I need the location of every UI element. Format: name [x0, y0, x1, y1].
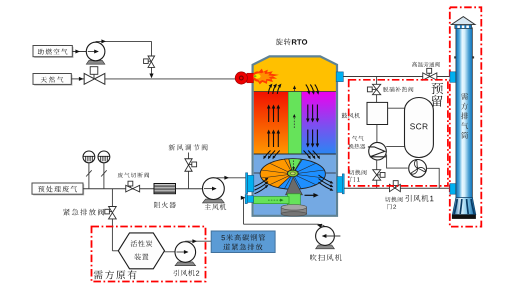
chimney skirt: [452, 198, 475, 215]
wire branch down to 脱硝补热阀: [376, 77, 378, 103]
label 紧急排放阀: [63, 209, 104, 216]
wire bottom main line RTO to chimney: [344, 187, 450, 189]
RTO right heat-bed column (magenta-blue gradient): [300, 92, 336, 155]
label 新风调节阀: [169, 144, 208, 150]
label 引风机1: [406, 195, 434, 202]
wire main waste-gas line: [83, 188, 203, 190]
wire 助燃空气-to-blower with arrow: [72, 50, 92, 54]
arrows left column up group1: [267, 105, 280, 123]
blower box (SCR air): [367, 102, 388, 124]
wire emergency branch down: [112, 189, 118, 251]
valve natural-gas (horizontal) with actuator: [84, 67, 105, 85]
green inlet pipe (bottom left): [254, 197, 290, 204]
RTO green center column: [288, 92, 301, 162]
wire bypass valve down-arrow into gas line: [149, 67, 153, 78]
rotary distributor hub: [287, 170, 298, 177]
wire purge line from green pipe to 吹扫风机: [241, 196, 325, 228]
arrows right column down group2: [306, 130, 319, 148]
wire box right to SCR: [388, 107, 405, 109]
label 鼓风机: [342, 113, 360, 119]
arrows left column up group2: [267, 130, 280, 148]
red dash-dot box 需方原有 area: [92, 227, 206, 282]
burner nozzle: [235, 72, 253, 84]
arrows left column up (slanted group): [268, 84, 296, 94]
valve air-bypass (vertical) with actuator: [144, 56, 155, 67]
label 气气换热器: [349, 136, 366, 149]
valve 脱硝补热阀 (vertical) with actuator: [367, 84, 380, 94]
RTO shell outline: [253, 56, 337, 215]
blue box 5米高碳钢管道紧急排放: [211, 231, 275, 253]
arrows right column down (slanted group): [306, 85, 320, 95]
label 需方原有: [94, 270, 137, 279]
valve 新风调节阀 (vertical) with actuator: [185, 153, 197, 189]
RTO combustion chamber (orange): [253, 56, 337, 91]
fan 引风机1 (centrifugal): [409, 160, 427, 178]
chimney top connector flange (cyan): [450, 72, 456, 83]
wire gas line to burner: [105, 78, 236, 80]
curved arrows left inlet of ellipse: [255, 178, 269, 194]
label 吹扫风机: [310, 254, 342, 261]
wire HX bottom to 切换阀门1: [376, 160, 378, 188]
label 切换阀门1: [349, 170, 367, 182]
box 预处理废气: [32, 183, 84, 195]
RTO left heat-bed column (red-orange gradient): [254, 92, 289, 155]
chimney cylinder 需方排气筒: [456, 28, 473, 199]
wire 引风机2 discharge to blue duct box: [185, 239, 211, 243]
burner flame: [253, 69, 279, 85]
wire blower-top to bypass valve: [96, 39, 152, 56]
rotary distributor radial lines: [261, 159, 324, 189]
box 助燃空气: [33, 46, 74, 58]
chimney base plate: [452, 215, 476, 219]
curved arrows right outlet of ellipse: [319, 175, 334, 191]
red dash-dot box SCR (预留) area: [349, 80, 448, 186]
heat exchanger 气气换热器: [368, 142, 386, 160]
chimney mid connector flange (cyan): [450, 184, 456, 195]
label 切换阀门2: [385, 197, 403, 210]
wire 引风机1 to chimney junction: [427, 168, 440, 188]
valve 紧急排放阀 (vertical) with actuator: [105, 207, 116, 219]
curved arrows top-right of ellipse: [304, 151, 320, 160]
valve 废气切断阀 (horizontal) with actuator: [126, 181, 140, 192]
RTO right top flange (cyan): [336, 72, 343, 82]
label 旋转RTO: [276, 38, 307, 45]
rotary distributor orange sector: [260, 159, 293, 188]
label 预留: [432, 83, 444, 107]
rotary distributor green sector: [289, 159, 303, 174]
label 废气切断阀: [118, 173, 150, 178]
red dash-dot box chimney area: [450, 7, 482, 226]
label 引风机2: [174, 270, 200, 277]
valve 切换阀门1 (vertical) with actuator: [373, 170, 385, 181]
wire box bottom to heat exchanger: [376, 125, 378, 143]
SCR vessel: [405, 98, 434, 158]
purge fan 吹扫风机: [316, 227, 341, 249]
wire RTO top to chimney: [343, 76, 450, 78]
wire HX to 引风机1: [387, 155, 408, 169]
valve 切换阀门2 (horizontal) with actuator: [389, 181, 400, 192]
main fan 主风机: [203, 178, 225, 203]
green pipe flange (cyan): [245, 195, 253, 204]
RTO internal divider lines: [254, 92, 337, 174]
curved arrows top-left of ellipse: [263, 151, 279, 160]
activated carbon hexagon 活性炭装置: [118, 233, 164, 269]
valve 高温旁通阀 (horizontal) with actuator: [423, 68, 437, 80]
pedestal cylinder: [281, 205, 307, 217]
instrument gauge 1: [83, 151, 95, 189]
pedestal cone (dark grey): [286, 177, 303, 195]
wire 天然气-to-valve with arrow: [71, 77, 84, 81]
label 阻火器: [154, 202, 176, 208]
RTO lower chamber (light blue): [254, 154, 336, 216]
instrument gauge 2: [98, 151, 110, 189]
flame arrester 阻火器: [154, 184, 176, 194]
chimney side lugs: [454, 56, 474, 58]
label 高温旁通阀: [412, 62, 440, 67]
green wedge dashed down-arrow: [292, 161, 295, 171]
arrows right column down group1: [306, 105, 319, 123]
wire HX right to SCR bottom: [386, 146, 406, 148]
label 需方排气筒 (vertical): [461, 93, 468, 139]
label 脱硝补热阀: [383, 87, 413, 92]
fan 引风机2: [175, 242, 196, 266]
rotary distributor ellipse (blue base): [260, 159, 325, 190]
blower B1 (combustion air fan): [86, 42, 105, 64]
straight arrow bottom chamber: [305, 193, 319, 198]
wire 主风机 discharge to RTO left flange: [213, 176, 245, 180]
RTO right mid flange (cyan): [337, 174, 344, 194]
green column dashed up-arrow: [293, 114, 296, 128]
RTO left mid flange (cyan): [246, 173, 254, 194]
label 主风机: [205, 204, 227, 211]
chimney rain cap: [451, 17, 475, 29]
box 天然气: [33, 74, 73, 86]
wire hexagon to 引风机2: [165, 251, 183, 253]
green column below ellipse: [288, 194, 301, 208]
